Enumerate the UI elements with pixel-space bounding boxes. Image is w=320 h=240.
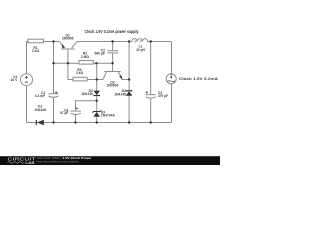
svg-text:http://circuitlab.com/c/nv5p4a: http://circuitlab.com/c/nv5p4a <box>37 159 80 163</box>
svg-text:1N4148: 1N4148 <box>34 108 46 112</box>
svg-text:Clock 1.5V 0.2mA power supply: Clock 1.5V 0.2mA power supply <box>85 29 140 34</box>
svg-text:4.4 mF: 4.4 mF <box>35 94 45 98</box>
svg-text:2N3906: 2N3906 <box>62 37 74 41</box>
svg-text:1N4148: 1N4148 <box>114 92 126 96</box>
svg-text:LAB: LAB <box>26 161 35 165</box>
svg-text:3 kΩ: 3 kΩ <box>76 71 84 75</box>
svg-text:2 kΩ: 2 kΩ <box>32 49 40 53</box>
svg-text:470 µF: 470 µF <box>158 94 168 98</box>
svg-text:560 pF: 560 pF <box>95 51 105 55</box>
svg-text:2 MΩ: 2 MΩ <box>81 55 89 59</box>
svg-text:1N4734A: 1N4734A <box>101 114 116 118</box>
svg-text:16 V: 16 V <box>11 78 19 82</box>
svg-text:47 µF: 47 µF <box>60 111 69 115</box>
svg-text:2N3904: 2N3904 <box>107 84 119 88</box>
svg-text:10 µH: 10 µH <box>136 48 145 52</box>
svg-text:Clock 1.5V 0.2mA: Clock 1.5V 0.2mA <box>179 77 219 81</box>
svg-text:1N4148: 1N4148 <box>81 92 93 96</box>
